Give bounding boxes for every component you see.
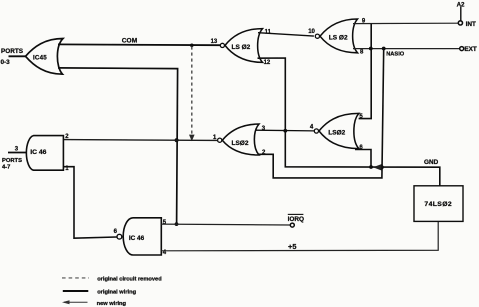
svg-text:EXT: EXT	[464, 46, 477, 53]
svg-text:A2: A2	[457, 1, 465, 8]
nand-gate IC46 (bottom) body	[123, 218, 161, 255]
legend solid sample	[63, 290, 89, 292]
junction pin8 / NASIO vertical	[382, 47, 386, 51]
legend arrowhead	[62, 300, 70, 304]
svg-text:5: 5	[163, 220, 167, 226]
svg-text:12: 12	[264, 60, 271, 66]
output bubble pin 13	[220, 43, 224, 47]
terminal IORQ	[290, 223, 294, 227]
dashed wire original circuit removed	[191, 47, 193, 135]
svg-text:+5: +5	[288, 242, 296, 251]
output bubble pin 10	[315, 34, 319, 38]
svg-text:LSØ2: LSØ2	[232, 140, 249, 147]
wire NASIO vertical down, then left to gate A pin2	[254, 49, 384, 178]
junction pin12 vertical / gate2-gate1 line	[283, 129, 287, 133]
svg-text:NASIO: NASIO	[386, 51, 405, 57]
junction IC45-vertical / IORQ line	[175, 222, 179, 226]
nor-gate LS02 gate A (pins 1,3,2) body	[222, 124, 259, 155]
svg-text:74LSØ2: 74LSØ2	[424, 201, 452, 208]
legend new wiring sample	[64, 301, 88, 303]
wire PORTS 4-7 stub	[8, 152, 27, 154]
overline IORQ	[288, 213, 304, 215]
nor-gate LS02 gate D (pins 13,11,12) body	[225, 29, 263, 63]
svg-text:LSØ2: LSØ2	[328, 129, 345, 136]
wire IC46 pin1 down to nand output bubble	[63, 167, 116, 239]
wire pin8 to EXT (NASIO net)	[353, 48, 460, 50]
junction GND line / gate2 pin6 vertical	[369, 165, 373, 169]
or-gate IC45 body	[26, 39, 64, 75]
svg-text:LS Ø2: LS Ø2	[329, 35, 348, 42]
svg-text:IC45: IC45	[33, 55, 47, 62]
svg-text:LS Ø2: LS Ø2	[232, 44, 251, 51]
wire gate A output to IC46 pin2	[63, 139, 217, 142]
wire pin4 to +5 and 74LS02 box bottom	[161, 222, 438, 251]
wire PORTS 0-3 stub	[9, 55, 27, 57]
svg-text:new wiring: new wiring	[97, 301, 127, 307]
box 74LS02 power	[414, 186, 463, 222]
nor-gate LS02 gate B (pins 4,5,6) body	[319, 113, 359, 148]
wire pin9 to INT	[353, 22, 458, 24]
svg-text:IORQ: IORQ	[288, 216, 304, 223]
svg-text:4: 4	[310, 125, 314, 131]
and-gate IC46 (middle) body	[26, 136, 63, 171]
terminal INT	[458, 21, 462, 25]
junction COM/dashed	[190, 44, 194, 48]
svg-text:IC 46: IC 46	[129, 235, 145, 242]
wire A2 drop	[460, 7, 462, 21]
svg-text:IC 46: IC 46	[30, 149, 46, 156]
svg-text:4-7: 4-7	[2, 164, 10, 170]
wire COM (IC45 top input to gate U1d output)	[58, 43, 220, 46]
svg-text:3: 3	[15, 147, 19, 153]
svg-text:original circuit removed: original circuit removed	[97, 277, 162, 283]
wire pin12 down and across to GND box	[258, 58, 440, 186]
junction pin8 / V1	[369, 47, 373, 51]
svg-text:COM: COM	[122, 38, 138, 45]
svg-text:original wiring: original wiring	[97, 290, 136, 296]
svg-text:8: 8	[360, 49, 364, 55]
wire pin5 to IORQ	[161, 223, 290, 226]
wire IC45 lower input down to IORQ line	[58, 68, 178, 224]
svg-text:PORTS: PORTS	[2, 158, 22, 164]
output bubble pin 4	[314, 129, 318, 133]
nor-gate LS02 gate C (pins 10,9,8) body	[320, 19, 358, 53]
junction GND line / NASIO vertical	[380, 165, 384, 169]
arrowhead of dashed wire	[189, 135, 195, 142]
svg-text:13: 13	[211, 39, 218, 45]
junction IC45-vertical / gate1 output line	[175, 138, 179, 142]
svg-text:GND: GND	[424, 159, 439, 166]
svg-text:6: 6	[114, 229, 118, 235]
svg-text:PORTS: PORTS	[1, 48, 24, 55]
terminal EXT	[460, 47, 464, 51]
arrowhead new wiring on GND line	[373, 164, 382, 170]
output bubble pin 1	[218, 138, 222, 142]
svg-text:0-3: 0-3	[1, 59, 11, 66]
svg-text:INT: INT	[466, 21, 476, 28]
wire V1 from pin9 line down to gate B pin5	[359, 24, 372, 119]
output bubble pin 6 (IC46 bottom)	[117, 234, 122, 239]
legend dashed sample	[62, 277, 89, 279]
wire gate B output to gate A pin3	[256, 129, 315, 132]
wire pin11 to gate C output	[258, 33, 314, 36]
svg-text:10: 10	[308, 29, 315, 35]
wire gate B pin6 stub down to GND line	[355, 150, 371, 167]
